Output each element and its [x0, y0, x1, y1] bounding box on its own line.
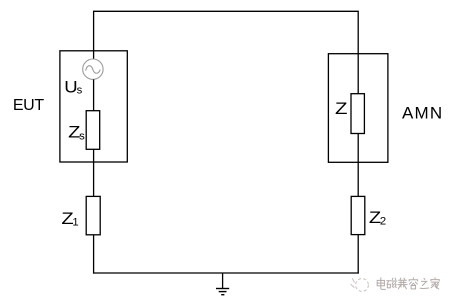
ground bar 2 — [219, 291, 227, 293]
wire Z1 to bottom — [93, 235, 95, 274]
resistor Z2 — [351, 196, 365, 234]
svg-text:AMN: AMN — [402, 104, 443, 123]
wire left vertical from top to source — [93, 11, 95, 60]
ground stem — [222, 273, 224, 288]
resistor Z1 — [86, 196, 100, 234]
svg-text:2: 2 — [380, 216, 386, 228]
watermark text 电磁兼容之家 (drawn strokes) — [377, 278, 440, 290]
AMN box — [328, 54, 388, 163]
resistor Zs — [86, 111, 100, 150]
svg-text:EUT: EUT — [13, 97, 44, 114]
EUT box — [60, 51, 127, 162]
wire Z to Z2 — [357, 134, 359, 197]
watermark logo icon — [351, 278, 369, 291]
svg-text:1: 1 — [72, 217, 78, 229]
ground bar 1 — [216, 288, 229, 290]
wire right vertical from top into AMN — [357, 11, 359, 94]
wire source to Zs — [93, 79, 95, 110]
wire Z2 to bottom — [357, 235, 359, 274]
wire top horizontal — [94, 10, 359, 12]
resistor Z in AMN — [351, 94, 364, 134]
source sine wave — [86, 66, 101, 74]
ground bar 3 — [221, 294, 224, 296]
source U1 circle — [83, 59, 103, 79]
svg-text:s: s — [77, 84, 83, 96]
svg-text:s: s — [79, 130, 85, 142]
wire bottom horizontal — [93, 272, 359, 274]
svg-text:Z: Z — [335, 100, 348, 118]
wire Zs to Z1 — [93, 149, 95, 196]
